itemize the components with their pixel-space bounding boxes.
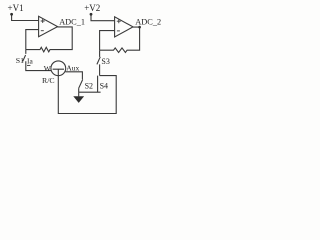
svg-text:+V1: +V1 (8, 3, 24, 13)
svg-text:Aux: Aux (66, 63, 79, 72)
svg-text:W: W (44, 64, 51, 73)
svg-text:R/C: R/C (42, 76, 55, 85)
svg-text:S1: S1 (16, 56, 24, 65)
svg-text:S3: S3 (101, 57, 109, 66)
svg-text:S2: S2 (85, 81, 93, 90)
svg-text:+V2: +V2 (84, 3, 100, 13)
svg-text:S4: S4 (100, 81, 108, 90)
svg-text:ADC_1: ADC_1 (59, 18, 85, 27)
svg-text:Ia: Ia (27, 56, 33, 65)
svg-text:ADC_2: ADC_2 (135, 18, 161, 27)
